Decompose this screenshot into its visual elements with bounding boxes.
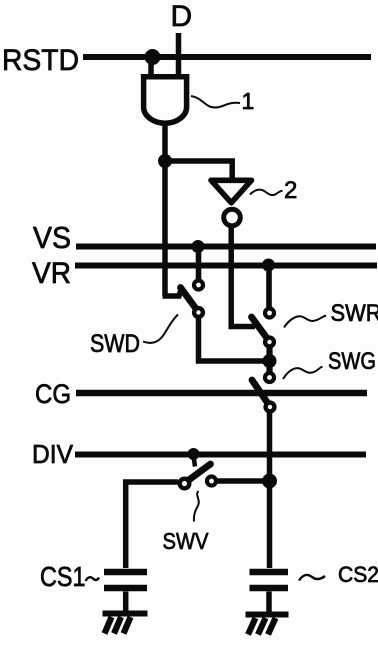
svg-text:CS2: CS2 bbox=[338, 562, 378, 587]
junction dot VS bbox=[192, 240, 205, 253]
junction dot on RSTD bbox=[145, 49, 161, 65]
wire SWG to CS2 column bbox=[267, 412, 273, 569]
svg-text:VS: VS bbox=[33, 220, 71, 255]
switch SWR contact lower bbox=[265, 338, 274, 347]
svg-text:2: 2 bbox=[284, 177, 297, 204]
wire VR bus line bbox=[75, 263, 377, 269]
wire CS2 lower stub bbox=[266, 592, 272, 612]
leader for SWV bbox=[194, 491, 199, 522]
wire inverter output bbox=[231, 227, 255, 327]
leader for label 2 bbox=[250, 190, 283, 196]
switch SWV contact left bbox=[180, 479, 190, 489]
svg-text:SWG: SWG bbox=[328, 348, 376, 375]
svg-text:SWD: SWD bbox=[90, 330, 140, 358]
svg-text:SWV: SWV bbox=[163, 528, 210, 554]
junction dot DIV bbox=[188, 448, 200, 460]
capacitor CS2 plates bbox=[250, 572, 289, 588]
wire SWR contact to common node bbox=[266, 347, 272, 362]
wire node to inverter bbox=[165, 161, 232, 180]
svg-text:CG: CG bbox=[35, 379, 71, 409]
junction node below gate bbox=[158, 154, 172, 168]
svg-text:RSTD: RSTD bbox=[2, 44, 79, 77]
wire VS bus line bbox=[76, 244, 376, 250]
switch SWV contact right bbox=[207, 477, 216, 486]
switch SWR blade bbox=[252, 317, 271, 343]
wire SWV left to CS1 bbox=[126, 482, 178, 568]
wire VR stub to SWR contact bbox=[266, 265, 272, 307]
junction dot common node bbox=[263, 354, 277, 368]
svg-text:D: D bbox=[171, 0, 193, 33]
svg-text:1: 1 bbox=[242, 88, 255, 114]
wire RSTD to gate input bbox=[148, 57, 154, 79]
ground below CS2 bbox=[246, 615, 289, 635]
svg-text:SWR: SWR bbox=[331, 300, 378, 327]
switch SWD contact lower bbox=[194, 308, 203, 317]
AND gate 1 bbox=[141, 74, 189, 123]
svg-text:CS1: CS1 bbox=[40, 561, 86, 592]
ground below CS1 bbox=[103, 614, 148, 634]
leader for label 1 bbox=[191, 96, 240, 108]
wire SWV right to CS2 column bbox=[218, 478, 270, 484]
switch SWD arm bar bbox=[163, 290, 182, 297]
tilde after CS1 bbox=[86, 577, 100, 581]
wire CS1 lower stub bbox=[123, 592, 129, 612]
wire DIV bus line bbox=[75, 452, 366, 458]
wire AND output bbox=[162, 122, 168, 161]
switch SWD blade bbox=[181, 288, 200, 314]
junction dot VR bbox=[262, 259, 275, 272]
wire D input vertical bbox=[176, 33, 182, 79]
inverter 2 bubble bbox=[224, 209, 241, 226]
junction dot CS2 column bbox=[262, 474, 277, 489]
switch SWG blade bbox=[252, 380, 271, 408]
switch SWD contact upper bbox=[194, 281, 203, 290]
wire CG bus line bbox=[76, 390, 367, 397]
wire main left vertical bbox=[162, 161, 168, 296]
wire RSTD bus line bbox=[83, 54, 371, 60]
svg-text:VR: VR bbox=[32, 257, 71, 290]
switch SWR contact upper bbox=[265, 309, 274, 318]
wire node to SWG contact bbox=[266, 361, 272, 372]
wire VS stub to SWD contact bbox=[196, 247, 202, 279]
inverter 2 triangle bbox=[211, 180, 252, 203]
leader for SWR bbox=[284, 316, 326, 328]
switch SWV blade bbox=[184, 464, 211, 484]
wire DIV stub bbox=[194, 456, 196, 467]
switch SWG contact lower bbox=[266, 403, 275, 412]
leader for SWG bbox=[283, 367, 323, 380]
leader for SWD bbox=[143, 315, 178, 344]
capacitor CS1 plates bbox=[104, 572, 147, 588]
wire SWD to common node bbox=[199, 318, 270, 362]
switch SWG contact upper bbox=[265, 373, 274, 382]
tilde before CS2 bbox=[299, 575, 325, 581]
svg-text:DIV: DIV bbox=[32, 439, 74, 469]
